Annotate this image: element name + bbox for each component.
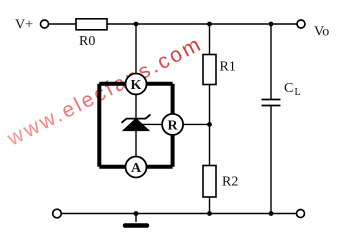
resistor R0 xyxy=(76,19,107,49)
terminal V+ xyxy=(15,18,49,33)
svg-text:K: K xyxy=(131,78,142,93)
pin A xyxy=(126,157,147,178)
shunt regulator U1 body xyxy=(99,84,172,167)
svg-text:R: R xyxy=(168,118,179,133)
svg-text:R1: R1 xyxy=(220,60,236,75)
node top CL xyxy=(269,22,274,27)
wire zener to A xyxy=(135,130,137,157)
wire K to top rail xyxy=(135,24,137,74)
wire R to divider node xyxy=(183,123,209,125)
resistor R2 xyxy=(203,166,238,198)
wire R1 top xyxy=(209,24,211,55)
resistor R1 xyxy=(203,55,236,85)
terminal bottom left xyxy=(53,209,62,218)
terminal bottom right xyxy=(297,210,305,218)
wire bottom rail xyxy=(61,213,296,215)
wire R1 to node xyxy=(209,85,211,166)
node ground xyxy=(134,211,139,216)
svg-text:V+: V+ xyxy=(15,18,33,33)
svg-text:A: A xyxy=(131,161,142,176)
node divider xyxy=(207,122,212,127)
wire CL top xyxy=(270,24,272,100)
capacitor CL xyxy=(262,81,301,106)
watermark xyxy=(3,32,206,151)
wire R2 bottom xyxy=(209,197,211,214)
wire reference to R xyxy=(136,123,163,125)
terminal Vo xyxy=(297,20,329,40)
zener diode xyxy=(122,114,151,130)
node CL bottom xyxy=(269,211,274,216)
wire CL bottom xyxy=(270,106,272,214)
svg-text:R0: R0 xyxy=(79,34,95,49)
ground xyxy=(125,214,147,226)
node R2 bottom xyxy=(207,211,212,216)
wire top rail left xyxy=(49,23,77,25)
node top R1 xyxy=(207,22,212,27)
svg-text:L: L xyxy=(295,87,301,98)
svg-text:R2: R2 xyxy=(222,175,238,190)
node top K xyxy=(134,22,139,27)
svg-text:C: C xyxy=(284,81,293,96)
wire zener to K xyxy=(135,94,137,119)
pin R xyxy=(162,114,183,135)
pin K xyxy=(126,74,147,95)
svg-text:Vo: Vo xyxy=(314,25,329,40)
wire top rail xyxy=(107,23,297,25)
